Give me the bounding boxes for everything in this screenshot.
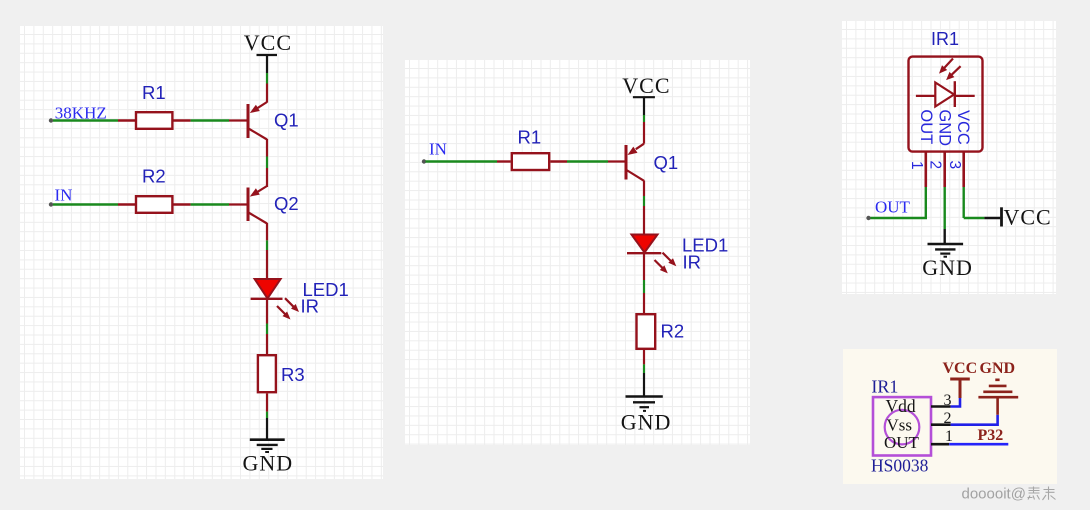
svg-text:GND: GND — [935, 109, 953, 146]
svg-text:IR: IR — [683, 252, 702, 273]
svg-text:VCC: VCC — [1004, 204, 1052, 229]
svg-text:OUT: OUT — [875, 197, 911, 216]
svg-text:IR1: IR1 — [871, 377, 898, 397]
svg-text:VCC: VCC — [244, 30, 292, 55]
svg-text:2: 2 — [927, 161, 944, 170]
svg-text:3: 3 — [946, 161, 963, 170]
svg-text:IR1: IR1 — [931, 29, 959, 49]
svg-text:IR: IR — [301, 296, 320, 317]
svg-text:GND: GND — [243, 450, 294, 475]
svg-text:R3: R3 — [281, 364, 305, 385]
svg-text:IN: IN — [55, 185, 73, 204]
svg-text:3: 3 — [944, 392, 952, 409]
svg-text:VCC: VCC — [622, 73, 670, 98]
svg-text:1: 1 — [945, 428, 953, 445]
svg-text:GND: GND — [621, 410, 672, 435]
svg-text:R1: R1 — [518, 127, 542, 148]
svg-text:OUT: OUT — [884, 433, 920, 452]
svg-text:R1: R1 — [142, 82, 166, 103]
svg-text:P32: P32 — [978, 427, 1004, 444]
svg-text:Q1: Q1 — [274, 110, 299, 131]
svg-text:Vss: Vss — [887, 416, 913, 435]
svg-text:dooooit@: dooooit@ — [962, 485, 1026, 502]
svg-text:R2: R2 — [142, 166, 166, 187]
svg-text:Q1: Q1 — [654, 152, 679, 173]
svg-text:Q2: Q2 — [274, 193, 299, 214]
svg-text:OUT: OUT — [917, 109, 935, 144]
svg-text:R2: R2 — [661, 321, 685, 342]
svg-text:VCC: VCC — [954, 110, 972, 145]
svg-text:2: 2 — [944, 410, 952, 427]
svg-text:Vdd: Vdd — [886, 396, 916, 416]
svg-text:GND: GND — [980, 360, 1016, 377]
svg-text:1: 1 — [908, 161, 925, 170]
svg-text:HS0038: HS0038 — [871, 456, 929, 476]
svg-text:IN: IN — [429, 140, 447, 159]
svg-text:VCC: VCC — [943, 360, 978, 377]
svg-text:38KHZ: 38KHZ — [55, 103, 107, 122]
svg-text:GND: GND — [922, 255, 973, 280]
